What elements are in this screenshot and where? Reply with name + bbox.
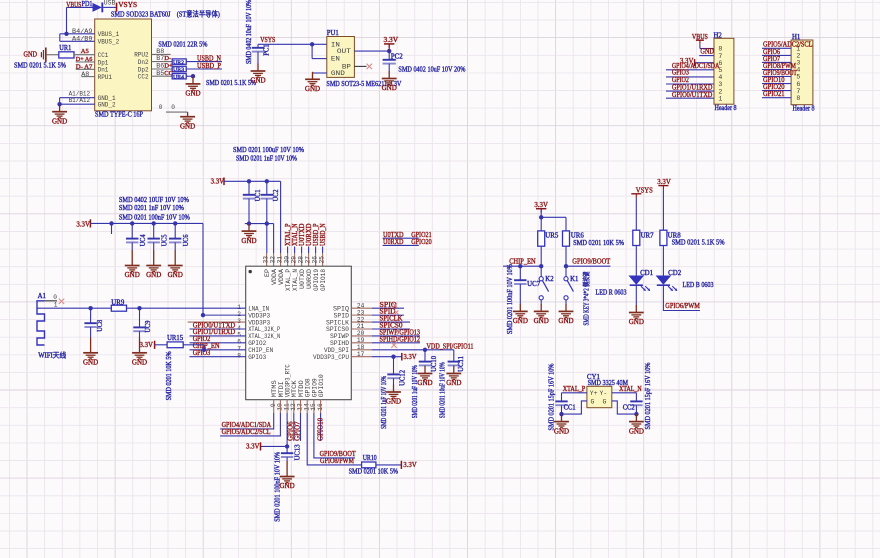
svg-text:XTAL_N: XTAL_N [619,385,642,393]
capacitor UC2 [266,181,268,194]
ground GND (UC4) [125,250,140,272]
svg-text:PC2: PC2 [391,54,404,61]
svg-text:SMD 0201 10K 5%: SMD 0201 10K 5% [166,351,173,400]
no-connect X (antenna pin0) [59,299,64,304]
wire GPIO4/ADC1/SDA [220,413,274,429]
svg-text:GND: GND [132,359,147,367]
svg-text:SMD TYPE-C 16P: SMD TYPE-C 16P [95,110,143,118]
svg-text:GND: GND [280,482,295,490]
capacitor UC11 [453,350,455,362]
svg-text:UR10: UR10 [363,455,378,462]
svg-text:A1: A1 [38,293,46,300]
wire SPIHD/GPIO12 [351,342,372,344]
ground GND (UC10) [418,366,433,380]
junction GND (type-c) [57,102,61,106]
svg-text:UC13: UC13 [295,444,302,461]
svg-text:SMD 0201 100uF 10V 10%: SMD 0201 100uF 10V 10% [233,146,304,154]
svg-text:Y+: Y+ [590,390,598,397]
svg-text:GPIO18: GPIO18 [320,269,327,291]
svg-text:UR1: UR1 [59,45,71,52]
svg-text:3.3V: 3.3V [404,353,417,361]
svg-text:A4/B9: A4/B9 [72,36,93,44]
wire XTAL_N [612,392,637,394]
svg-text:1: 1 [718,95,722,102]
ground GND (PU1) [305,72,320,86]
svg-text:GPIO3: GPIO3 [248,354,266,361]
junction IN/EN [310,42,314,46]
svg-text:SMD 0201 10K 5%: SMD 0201 10K 5% [573,239,624,247]
svg-text:3.3V: 3.3V [384,35,399,44]
svg-text:Y-: Y- [600,390,608,397]
wire VBUS [67,6,93,8]
svg-text:GND: GND [125,271,140,279]
svg-text:3.3V: 3.3V [211,177,225,185]
ground GND (UC5) [146,250,161,272]
svg-text:SMD 0201 5.1K 5%: SMD 0201 5.1K 5% [206,79,256,87]
svg-text:VDD_SPI/GPIO11: VDD_SPI/GPIO11 [427,342,474,350]
wire USBD_N [186,61,222,63]
svg-text:0: 0 [159,104,163,111]
switch K2 [539,277,543,281]
svg-text:VSYS: VSYS [260,36,275,44]
resistor UR4 [172,74,186,79]
junction UC10 [423,348,427,352]
svg-text:GPIO6/PWM: GPIO6/PWM [665,302,700,310]
svg-text:VDDA: VDDA [278,269,285,285]
svg-text:SMD 0201 1nF 10V 10%: SMD 0201 1nF 10V 10% [119,204,184,212]
junction UC12 [391,355,395,359]
svg-text:GND: GND [446,379,461,387]
svg-text:USB: USB [104,0,116,7]
capacitor UC5 [153,223,155,238]
chip top pin stubs [266,253,268,266]
svg-text:GND: GND [629,427,644,435]
wire XTAL_P [562,392,587,394]
svg-text:3.3V: 3.3V [246,443,260,451]
svg-text:UR7: UR7 [641,233,655,240]
svg-text:3.3V: 3.3V [534,201,548,209]
svg-text:4: 4 [718,74,722,81]
svg-text:SMD 0201 100nF 10V 10%: SMD 0201 100nF 10V 10% [275,451,282,521]
svg-text:GND: GND [629,318,644,326]
svg-text:SMD KEY 3*4*2 侧按键: SMD KEY 3*4*2 侧按键 [582,271,591,325]
capacitor UC1 [248,181,250,194]
net tie U0TXD-GPIO21 [383,237,419,239]
svg-text:UC10: UC10 [431,355,438,372]
wire EN [311,44,313,58]
ground GND (UC11) [446,366,461,380]
svg-text:UC8: UC8 [97,319,104,332]
svg-text:A5: A5 [81,48,90,55]
svg-text:SMD 0201 5.1K 5%: SMD 0201 5.1K 5% [14,62,66,70]
wire VDDA drop [280,181,282,253]
svg-text:UC2: UC2 [273,189,280,202]
svg-text:UR2: UR2 [173,60,184,66]
wire K2 to GND [540,300,542,304]
wire K1 to GND [565,300,567,304]
ground GND (CD1) [629,305,644,319]
svg-text:1: 1 [54,302,58,309]
svg-text:XTAL_N: XTAL_N [292,269,299,291]
svg-text:0: 0 [171,104,175,111]
wire CC2 to ground [186,75,193,77]
resistor UR8 [660,230,667,245]
svg-text:GPIO9/BOOT: GPIO9/BOOT [572,257,611,265]
svg-text:RPU1: RPU1 [98,74,112,82]
ground GND (UC13) [280,461,295,483]
chip bottom pin stubs [273,400,275,413]
svg-text:7: 7 [718,53,722,60]
wire GPIO8/PWM [307,413,361,465]
wire UR7 to CD1 [635,246,637,276]
svg-text:GND: GND [168,271,183,279]
wire VDD_SPI/GPIO11 [351,349,372,351]
wire GPIO5/ADC2/SCL [220,413,280,436]
power port 3.3V (UR10) [400,461,402,469]
ground GND (UC12) [386,385,401,399]
capacitor UC13 [286,446,288,453]
svg-text:3: 3 [718,81,722,88]
ground GND (UC1 UC2) [242,224,257,238]
svg-text:GPIO10: GPIO10 [318,374,325,397]
svg-text:SMD 0201 5.1K 5%: SMD 0201 5.1K 5% [672,239,725,247]
svg-text:PD1: PD1 [82,1,93,8]
svg-text:CC1: CC1 [564,405,576,412]
wire UR8 to CD2 [662,246,664,276]
svg-text:GND: GND [250,77,265,85]
wire 3.3V VDDA rail [224,180,281,182]
ground GND (CC2) [629,414,644,428]
svg-text:CC2: CC2 [138,74,149,82]
wire SPICLK [351,321,372,323]
svg-text:UC11: UC11 [458,356,465,372]
svg-text:29: 29 [290,256,297,264]
svg-text:GND: GND [386,398,401,406]
svg-text:SMD 0201 100nF 10V 10%: SMD 0201 100nF 10V 10% [507,264,514,334]
svg-text:GND: GND [331,70,345,78]
svg-text:B1/A12: B1/A12 [69,97,91,105]
svg-text:XTAL_N: XTAL_N [292,223,299,246]
wire UR10 to 3.3V [376,464,402,466]
svg-text:U0RXD: U0RXD [383,238,404,246]
svg-text:K1: K1 [570,276,578,283]
svg-text:UC9: UC9 [145,320,152,333]
svg-text:VDDA: VDDA [271,269,278,285]
svg-text:UC6: UC6 [183,234,190,247]
svg-text:G: G [591,398,595,405]
capacitor UC7 [519,266,521,280]
svg-text:3.3V: 3.3V [403,461,417,469]
svg-text:GPIO20: GPIO20 [411,238,432,246]
svg-text:SMD 0402 10uF 10V 10%: SMD 0402 10uF 10V 10% [246,0,253,64]
resistor UR3 [172,66,186,71]
junction CC2 gnd [634,412,638,416]
svg-text:VSYS: VSYS [118,0,137,9]
switch K1 [564,277,568,281]
svg-text:2: 2 [796,53,800,60]
wire GPIO7 vertical [300,413,302,441]
svg-text:SMD 0201 10K 5%: SMD 0201 10K 5% [349,467,399,475]
svg-text:GPIO7: GPIO7 [294,421,301,441]
junction OUT [387,49,391,53]
svg-text:GND: GND [382,84,397,92]
power port 3.3V (UC13) [260,442,262,450]
svg-text:GND: GND [534,317,549,325]
ground GND (shield) [180,112,195,123]
svg-text:GND: GND [146,271,161,279]
svg-text:32: 32 [269,256,276,264]
svg-text:31: 31 [276,256,283,264]
capacitor UC4 [131,223,133,238]
svg-text:B5: B5 [156,70,164,78]
svg-text:SMD 0201 15pF 16V 10%: SMD 0201 15pF 16V 10% [548,363,555,430]
wire CD2 to GPIO6/PWM [663,285,700,310]
wire CHIP_EN (buttons) [503,265,541,267]
ground GND (CC1) [554,414,569,428]
svg-text:SPIHD/GPIO12: SPIHD/GPIO12 [380,335,421,343]
wire SPIQ [351,307,372,309]
svg-text:PC1: PC1 [264,44,271,56]
svg-text:SMD SOD323 BAT60J (ST意法半导体): SMD SOD323 BAT60J (ST意法半导体) [111,10,221,19]
svg-text:SMD 0402 10UF 10V 10%: SMD 0402 10UF 10V 10% [119,196,189,204]
resistor UR5 body [538,231,545,246]
wire stub down [109,221,113,225]
junction UC4 [130,221,134,225]
svg-text:UR15: UR15 [167,335,184,342]
svg-text:GND: GND [513,317,528,325]
ground GND (K2) [534,304,549,318]
ground GND (UC9) [132,338,147,359]
capacitor CC2 [635,393,637,401]
no-connect X (SPIHD) [391,343,396,348]
svg-text:SMD 0201 1uF 10V 10%: SMD 0201 1uF 10V 10% [412,365,419,418]
net tie U0RXD-GPIO20 [383,244,419,246]
wire 3.3V to UR15 [155,344,168,346]
svg-text:8: 8 [718,46,722,53]
svg-text:27: 27 [304,256,311,264]
chip U1 body [246,266,352,400]
svg-text:GND: GND [558,317,573,325]
junction CC1 gnd [559,412,563,416]
svg-text:UR5: UR5 [545,232,559,239]
capacitor UC8 [90,308,92,323]
wire VDD3P3_CPU [351,356,372,358]
svg-text:GND: GND [241,237,256,245]
wire CY1 G left [562,401,587,414]
wire VSYS to IN [258,43,327,45]
svg-text:XTAL_P: XTAL_P [285,269,292,291]
svg-text:SMD 0201 22R 5%: SMD 0201 22R 5% [158,40,207,48]
wire VSYS to UR7 [635,198,637,231]
power port 3.3V (VDD3P3_CPU) [401,353,403,361]
svg-text:Header 8: Header 8 [793,104,815,112]
no-connect X (SPID) [394,311,398,315]
svg-text:3.3V: 3.3V [76,220,90,228]
svg-text:GND: GND [83,359,98,367]
svg-text:USBD_P: USBD_P [313,223,320,246]
wire OUT to 3.3V [354,50,389,52]
svg-text:GND_2: GND_2 [98,102,116,110]
svg-text:UC4: UC4 [140,234,147,247]
capacitor UC10 [424,350,426,362]
wire GND to UR1 [46,54,58,56]
svg-text:UC7: UC7 [527,281,541,288]
junction UC8 [88,306,92,310]
wire EP to GND rail [266,224,268,253]
wire diode cathode to VSYS [103,6,116,8]
svg-text:4: 4 [796,67,800,74]
svg-text:U0RXD: U0RXD [306,223,313,246]
junction UC6 [173,221,177,225]
svg-text:2: 2 [718,88,722,95]
junction UC9 [137,306,141,310]
svg-text:3: 3 [796,60,800,67]
wire GPIO9/BOOT (pin15) [314,413,355,458]
svg-text:6: 6 [796,81,800,88]
svg-text:GND: GND [180,122,195,130]
wire PU1 GND [313,72,327,74]
ground GND (UC8) [83,338,98,359]
svg-text:SMD 0201 100nF 10V 10%: SMD 0201 100nF 10V 10% [119,214,190,222]
svg-text:LED B 0603: LED B 0603 [683,281,714,289]
svg-text:A8: A8 [81,71,89,79]
ground GND (PC2) [382,71,397,85]
junction VBUS [64,32,68,36]
svg-text:28: 28 [297,256,304,264]
wire UR6 bottom [565,246,567,276]
svg-text:WIFI天线: WIFI天线 [38,351,66,360]
resistor UR6 body [563,231,570,246]
power port 3.3V (PU1 out) [388,48,390,51]
wire GPIO6 vertical [293,413,295,441]
svg-text:UC5: UC5 [161,234,168,247]
wire H2 pin6 3.3V [695,62,714,64]
wire USBD_P [186,68,222,70]
svg-text:30: 30 [283,256,290,264]
svg-text:0: 0 [53,294,57,301]
svg-text:USBD_P: USBD_P [197,62,221,70]
svg-text:SMD 0201 1nF 10V 10%: SMD 0201 1nF 10V 10% [381,376,388,429]
svg-text:XTAL_P: XTAL_P [285,223,292,246]
svg-text:GPIO21: GPIO21 [763,90,785,98]
resistor UR7 [633,230,640,245]
power port VSYS [116,3,118,12]
svg-text:XTAL_P: XTAL_P [563,385,586,393]
wire 3.3V to UR5 UR6 [540,209,542,231]
no-connect X (BP) [367,64,372,69]
ground GND (PC1) [251,64,266,78]
resistor UR2 [172,59,186,64]
wire GPIO10 vertical [320,413,322,441]
wire UR1 to CC1 [74,54,95,56]
svg-text:SMD 0201 10uF 10V 10%: SMD 0201 10uF 10V 10% [439,362,446,418]
svg-text:GND: GND [52,117,67,125]
svg-text:GND: GND [24,51,38,59]
capacitor UC6 [174,223,176,238]
svg-text:VDD3P3_CPU: VDD3P3_CPU [313,354,349,361]
wire VDD3P3 pin3 stub [188,321,246,323]
svg-text:26: 26 [311,256,318,264]
wire 3.3V to UR8 [662,189,664,230]
connector UJ1 SMD TYPE-C 16P body [95,19,152,111]
wire GND_1 GND_2 [60,97,95,99]
svg-text:GPIO9/BOOT: GPIO9/BOOT [320,450,357,458]
svg-text:LED R 0603: LED R 0603 [596,288,627,296]
svg-text:8: 8 [237,353,241,360]
svg-text:GND: GND [700,48,714,56]
wire CY1 G right [612,401,637,414]
svg-text:CC2: CC2 [623,405,636,412]
wire GND rail (UC1 UC2) [245,223,274,225]
wire H2 pin8 VBUS [699,44,701,48]
capacitor PC2 [388,51,390,60]
wire UR15 to CHIP_EN [183,344,204,346]
svg-text:SMD 0402 10uF 10V 20%: SMD 0402 10uF 10V 20% [398,65,465,73]
svg-text:USBD_N: USBD_N [320,223,327,246]
svg-text:GPIO19: GPIO19 [313,269,320,291]
svg-text:8: 8 [796,95,800,102]
capacitor UC9 [139,308,141,327]
wire VDDA2 to GND rail [273,224,275,253]
wire CD1 to GND [635,285,637,305]
svg-text:EN: EN [331,56,340,64]
wire antenna pin0 [45,300,58,302]
wire UR5 bottom [540,246,542,276]
svg-text:GND: GND [305,85,320,93]
svg-text:SMD 0201 15pF 16V 10%: SMD 0201 15pF 16V 10% [645,362,652,429]
svg-text:GND: GND [554,427,569,435]
wire SPIWP/GPIO13 [351,335,372,337]
wire SPICS0 [351,328,372,330]
junction UC5 [152,221,156,225]
svg-text:VBUS_2: VBUS_2 [98,39,120,47]
capacitor CC1 [561,393,563,401]
no-connect X (SPIQ) [393,303,398,308]
svg-text:EP: EP [264,269,271,277]
wire BP no-connect [354,65,366,67]
svg-text:7: 7 [796,88,800,95]
wire VDD3P3_RTC 3.3V [286,413,288,446]
svg-text:25: 25 [318,256,325,264]
capacitor UC12 [393,357,395,374]
junction VDD3P3 [201,313,205,317]
wire GPIO9/BOOT (buttons) [566,265,610,267]
wire SPID [351,314,372,316]
wire 3.3V to VDD3P3 [202,223,204,315]
svg-text:K2: K2 [545,276,554,283]
ground GND (CC2) [186,76,201,90]
ground GND (type-c) [52,104,67,118]
ground GND (K1) [559,304,574,318]
svg-text:GPIO10: GPIO10 [318,417,325,441]
svg-text:3.3V: 3.3V [140,341,154,349]
svg-text:GND: GND [185,90,200,98]
svg-text:GND: GND [417,379,432,387]
svg-text:U0RXD: U0RXD [306,269,313,289]
ground GND (UC6) [168,250,183,272]
svg-text:U0TXD: U0TXD [299,223,306,246]
svg-text:U0TXD: U0TXD [299,269,306,289]
svg-text:33: 33 [262,256,269,264]
svg-text:5: 5 [796,74,800,81]
ground GND (UC7) [513,304,528,318]
svg-text:UR4: UR4 [173,74,184,80]
svg-text:G: G [603,398,607,405]
svg-text:SMD 0201 1nF 10V 10%: SMD 0201 1nF 10V 10% [236,154,297,162]
capacitor PC1 [257,44,259,47]
svg-text:UR3: UR3 [173,67,184,73]
svg-text:GPIO3: GPIO3 [193,349,211,357]
